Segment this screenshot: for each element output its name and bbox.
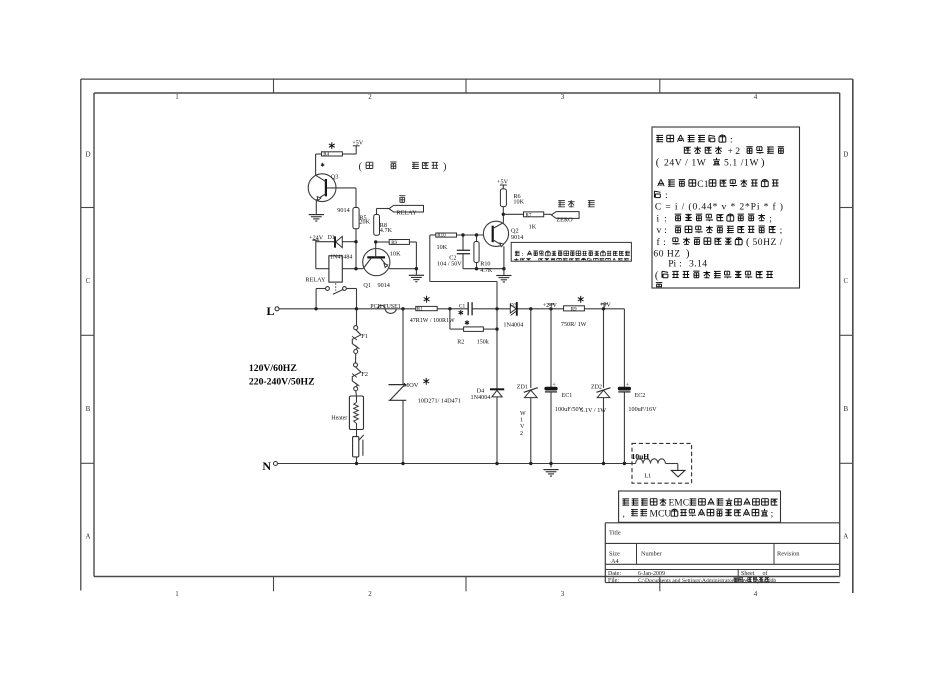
svg-text:100uF/50V: 100uF/50V bbox=[555, 406, 584, 413]
svg-text:(: ( bbox=[746, 237, 750, 248]
svg-text:;: ; bbox=[769, 213, 772, 224]
svg-text:3.14: 3.14 bbox=[689, 259, 707, 270]
svg-text:Number: Number bbox=[641, 551, 663, 558]
svg-text:1: 1 bbox=[175, 590, 179, 598]
svg-text:+5V: +5V bbox=[497, 178, 509, 185]
svg-text:100uF/16V: 100uF/16V bbox=[628, 406, 657, 413]
svg-text:10K: 10K bbox=[437, 244, 448, 251]
svg-text:Sheet: Sheet bbox=[741, 571, 755, 577]
svg-text:Q1: Q1 bbox=[363, 282, 371, 289]
svg-text:,: , bbox=[623, 509, 625, 519]
svg-text:ZD1: ZD1 bbox=[517, 385, 528, 391]
svg-text:1N4004: 1N4004 bbox=[503, 321, 523, 328]
svg-text:750R/ 1W: 750R/ 1W bbox=[561, 321, 587, 328]
svg-text:+5V: +5V bbox=[352, 139, 364, 146]
svg-text:10uH: 10uH bbox=[632, 452, 650, 461]
svg-text::: : bbox=[679, 259, 682, 270]
svg-text:EC2: EC2 bbox=[635, 393, 646, 399]
svg-text:R2: R2 bbox=[457, 339, 464, 345]
svg-text:+5V: +5V bbox=[600, 302, 612, 309]
svg-text:D3: D3 bbox=[510, 302, 517, 308]
svg-text:+ 2: + 2 bbox=[728, 146, 741, 157]
svg-text:D1: D1 bbox=[328, 235, 335, 241]
svg-text:47R1W / 100R1W: 47R1W / 100R1W bbox=[410, 318, 455, 324]
svg-text:of: of bbox=[763, 570, 768, 577]
svg-text:20K: 20K bbox=[359, 219, 370, 226]
svg-text:R4: R4 bbox=[323, 153, 329, 158]
svg-text:6-Jan-2009: 6-Jan-2009 bbox=[638, 571, 665, 577]
svg-text:D: D bbox=[843, 151, 848, 159]
svg-text:RELAY: RELAY bbox=[397, 210, 418, 217]
svg-text:A: A bbox=[85, 533, 90, 541]
svg-text:1: 1 bbox=[175, 93, 179, 101]
svg-text:10K: 10K bbox=[390, 251, 401, 258]
svg-text:150k: 150k bbox=[477, 339, 489, 345]
svg-text:9014: 9014 bbox=[511, 234, 523, 241]
svg-text:+: + bbox=[626, 382, 630, 389]
svg-text:9014: 9014 bbox=[337, 207, 349, 214]
svg-text:104 / 50V: 104 / 50V bbox=[437, 261, 462, 268]
svg-text:R9: R9 bbox=[571, 306, 577, 312]
svg-text:F1: F1 bbox=[361, 333, 368, 340]
svg-text:Q3: Q3 bbox=[331, 174, 339, 181]
svg-text:N: N bbox=[262, 459, 271, 473]
svg-text:File:: File: bbox=[608, 578, 619, 584]
svg-text:Date:: Date: bbox=[608, 571, 621, 577]
svg-text:MCU: MCU bbox=[650, 509, 672, 519]
svg-text::: : bbox=[665, 190, 668, 201]
svg-text:9014: 9014 bbox=[378, 282, 390, 289]
svg-text:2: 2 bbox=[520, 431, 523, 437]
svg-text:(: ( bbox=[656, 157, 660, 168]
svg-text::: : bbox=[521, 251, 523, 258]
svg-text:W: W bbox=[520, 411, 526, 417]
svg-text:C1: C1 bbox=[697, 179, 708, 190]
svg-text:D: D bbox=[85, 151, 90, 159]
svg-text::: : bbox=[664, 225, 667, 236]
svg-text:RELAY: RELAY bbox=[305, 277, 326, 284]
svg-text:C: C bbox=[86, 277, 91, 285]
svg-text:1N41484: 1N41484 bbox=[330, 255, 352, 261]
svg-text:C:\Documents and Settings\Admi: C:\Documents and Settings\Administrator\ bbox=[638, 578, 736, 584]
svg-text:;: ; bbox=[771, 509, 774, 519]
svg-text:B: B bbox=[86, 405, 91, 413]
svg-text:2: 2 bbox=[368, 93, 372, 101]
svg-text:4.7K: 4.7K bbox=[480, 267, 493, 274]
svg-text:R7: R7 bbox=[526, 213, 532, 218]
svg-text:4.7K: 4.7K bbox=[380, 227, 393, 234]
svg-text:L: L bbox=[266, 304, 274, 318]
svg-text:A: A bbox=[843, 533, 848, 541]
svg-text:L1: L1 bbox=[644, 472, 651, 479]
svg-text:C1: C1 bbox=[459, 304, 466, 310]
svg-text:Pi: Pi bbox=[668, 259, 676, 270]
svg-text:F2: F2 bbox=[361, 371, 368, 378]
svg-text:Revision: Revision bbox=[777, 551, 800, 558]
svg-text:R10: R10 bbox=[437, 234, 446, 239]
svg-text:5.1V / 1W: 5.1V / 1W bbox=[580, 407, 606, 414]
svg-text:ZD2: ZD2 bbox=[591, 385, 602, 391]
svg-text:V: V bbox=[520, 424, 525, 430]
svg-text:A4: A4 bbox=[611, 558, 620, 565]
svg-text:1N4004: 1N4004 bbox=[471, 394, 491, 401]
svg-text:4: 4 bbox=[754, 93, 758, 101]
svg-text:1K: 1K bbox=[529, 224, 537, 231]
svg-text:i: i bbox=[657, 213, 660, 224]
svg-text::: : bbox=[664, 213, 667, 224]
svg-text:\sc.ddb: \sc.ddb bbox=[760, 578, 776, 584]
svg-text:5.1 /1W: 5.1 /1W bbox=[724, 157, 759, 168]
svg-text:C = i / (0.44* v * 2*Pi * f ): C = i / (0.44* v * 2*Pi * f ) bbox=[655, 201, 784, 212]
svg-text:MOV: MOV bbox=[403, 382, 418, 389]
svg-text:v: v bbox=[657, 225, 662, 236]
svg-text:220-240V/50HZ: 220-240V/50HZ bbox=[249, 376, 315, 387]
svg-text:3: 3 bbox=[561, 93, 565, 101]
svg-text:R1: R1 bbox=[417, 306, 423, 312]
svg-text:2: 2 bbox=[368, 590, 372, 598]
svg-text:24V / 1W: 24V / 1W bbox=[664, 157, 707, 168]
svg-text:ZERO: ZERO bbox=[556, 217, 573, 224]
svg-text:4: 4 bbox=[754, 590, 758, 598]
svg-text::: : bbox=[663, 237, 666, 248]
svg-text:(: ( bbox=[655, 270, 659, 281]
svg-text:;: ; bbox=[780, 225, 783, 236]
svg-text:(: ( bbox=[359, 161, 363, 172]
svg-text:Size: Size bbox=[609, 551, 620, 558]
svg-text:10K: 10K bbox=[513, 199, 524, 206]
svg-text:EC1: EC1 bbox=[562, 393, 573, 399]
svg-text:): ) bbox=[443, 161, 447, 172]
svg-text:Drawn By:: Drawn By: bbox=[735, 578, 762, 584]
svg-text:): ) bbox=[761, 157, 765, 168]
svg-text::: : bbox=[730, 134, 733, 145]
svg-text:50HZ /: 50HZ / bbox=[753, 237, 783, 248]
svg-text:1: 1 bbox=[520, 418, 523, 424]
svg-text:C: C bbox=[843, 277, 848, 285]
svg-text:120V/60HZ: 120V/60HZ bbox=[249, 363, 297, 374]
svg-text:Title: Title bbox=[609, 530, 621, 537]
svg-text:R9: R9 bbox=[391, 241, 397, 246]
svg-text:+: + bbox=[552, 382, 556, 389]
svg-text:3: 3 bbox=[561, 590, 565, 598]
svg-text:B: B bbox=[843, 405, 848, 413]
svg-text:Heater: Heater bbox=[331, 416, 347, 422]
svg-text:60 HZ: 60 HZ bbox=[653, 249, 680, 260]
svg-text:EMC: EMC bbox=[669, 499, 690, 509]
svg-text:10D271/ 14D471: 10D271/ 14D471 bbox=[418, 397, 461, 404]
